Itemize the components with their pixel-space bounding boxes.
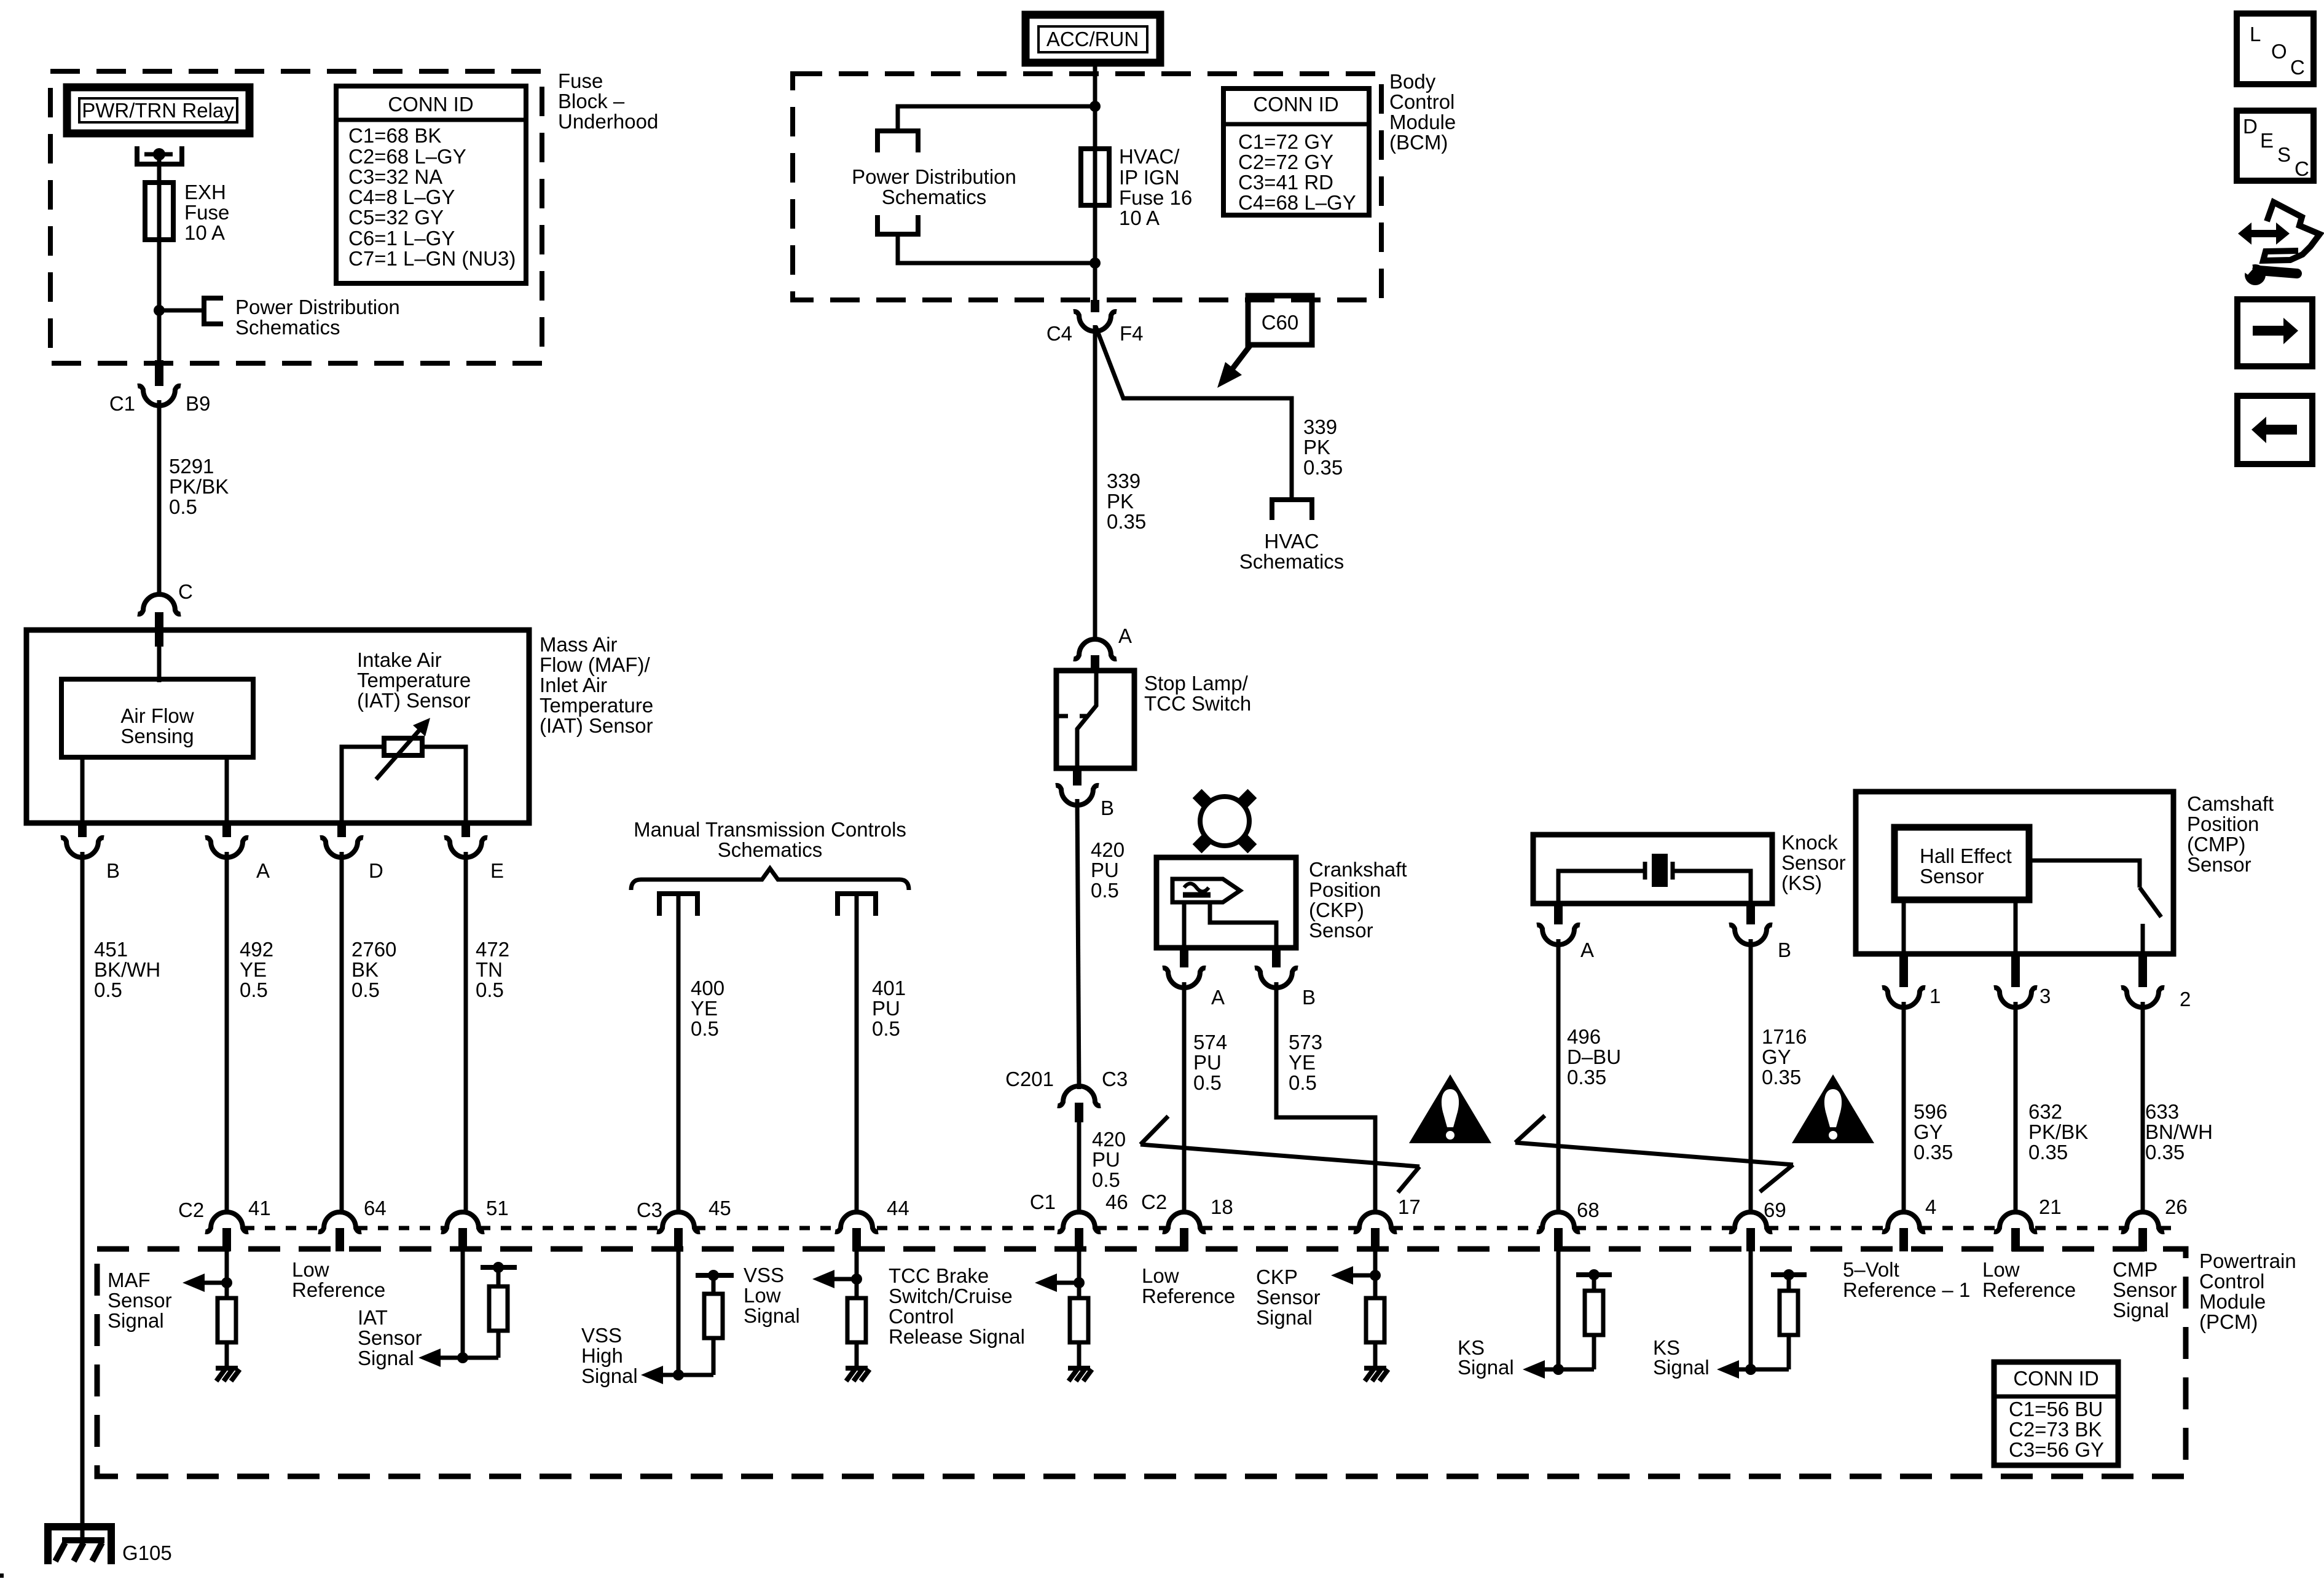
svg-text:C7=1 L–GN (NU3): C7=1 L–GN (NU3) bbox=[348, 247, 516, 270]
svg-text:BK: BK bbox=[351, 958, 379, 981]
piezo element bbox=[1652, 854, 1668, 887]
svg-text:Temperature: Temperature bbox=[540, 694, 653, 717]
svg-text:Schematics: Schematics bbox=[1239, 550, 1345, 573]
svg-text:0.35: 0.35 bbox=[1762, 1066, 1801, 1089]
pencil underline bbox=[1183, 892, 1211, 898]
power distribution schematics bracket bbox=[204, 298, 223, 324]
curly brace bbox=[631, 868, 909, 890]
svg-text:C201: C201 bbox=[1005, 1068, 1054, 1090]
KS pull-up resistor (69) bbox=[1780, 1291, 1798, 1335]
warning triangle 1 bbox=[1409, 1074, 1491, 1143]
KS junction dot (69) bbox=[1745, 1364, 1756, 1375]
svg-text:C2=72 GY: C2=72 GY bbox=[1238, 151, 1333, 173]
svg-text:Signal: Signal bbox=[1458, 1356, 1514, 1379]
svg-text:CMP: CMP bbox=[2113, 1258, 2157, 1281]
svg-text:C4=8 L–GY: C4=8 L–GY bbox=[348, 186, 455, 208]
IAT variable arrow bbox=[376, 728, 422, 779]
wire relay to fuse to junction bbox=[157, 154, 162, 310]
relay contact bar bbox=[144, 152, 173, 157]
svg-text:Position: Position bbox=[2187, 813, 2259, 835]
LOC icon box bbox=[2237, 14, 2314, 84]
svg-text:Powertrain: Powertrain bbox=[2199, 1250, 2296, 1272]
svg-text:492: 492 bbox=[240, 938, 273, 961]
svg-text:420: 420 bbox=[1091, 838, 1125, 861]
svg-text:Signal: Signal bbox=[108, 1309, 164, 1332]
pin 64 connector bbox=[318, 1212, 361, 1232]
wire 339 PK 0.35 main bbox=[1093, 325, 1097, 642]
ACC/RUN feed box bbox=[1026, 15, 1160, 63]
wire 596 GY 0.35 bbox=[1902, 1002, 1906, 1215]
C60 callout box bbox=[1248, 296, 1312, 345]
svg-text:PU: PU bbox=[1193, 1051, 1222, 1074]
svg-text:HVAC: HVAC bbox=[1264, 530, 1319, 553]
wire 574 PU 0.5 bbox=[1182, 982, 1187, 1215]
svg-text:PU: PU bbox=[1091, 859, 1119, 881]
svg-text:68: 68 bbox=[1577, 1199, 1600, 1221]
junction dot bbox=[154, 305, 165, 316]
connector C1/B9 stub bbox=[155, 360, 163, 386]
back arrow icon box bbox=[2237, 396, 2312, 464]
svg-text:Sensor: Sensor bbox=[358, 1326, 422, 1349]
svg-text:Power Distribution: Power Distribution bbox=[235, 296, 400, 318]
svg-text:PK: PK bbox=[1107, 490, 1134, 513]
ground G105 bracket bbox=[48, 1527, 111, 1564]
svg-text:Sensing: Sensing bbox=[120, 725, 194, 747]
svg-text:339: 339 bbox=[1107, 470, 1140, 492]
connector B cup bbox=[1056, 786, 1099, 805]
svg-text:GY: GY bbox=[1914, 1120, 1943, 1143]
svg-text:Sensor: Sensor bbox=[1309, 919, 1373, 942]
MAF signal wire bbox=[225, 1251, 229, 1298]
svg-text:0.5: 0.5 bbox=[1289, 1071, 1317, 1094]
svg-text:IAT: IAT bbox=[358, 1306, 388, 1329]
TCC brake signal wire bbox=[855, 1251, 859, 1298]
svg-text:(BCM): (BCM) bbox=[1389, 131, 1448, 154]
low reference wire (pin 46) bbox=[1077, 1251, 1082, 1298]
svg-text:BN/WH: BN/WH bbox=[2145, 1120, 2213, 1143]
svg-text:C1: C1 bbox=[1030, 1191, 1056, 1213]
relay contact bracket bbox=[137, 146, 182, 164]
CKP internal wires bbox=[1184, 902, 1276, 948]
svg-text:1: 1 bbox=[1929, 985, 1941, 1007]
svg-text:Camshaft: Camshaft bbox=[2187, 792, 2274, 815]
svg-text:G105: G105 bbox=[122, 1542, 172, 1564]
svg-text:596: 596 bbox=[1914, 1100, 1947, 1123]
svg-text:Low: Low bbox=[1142, 1264, 1179, 1287]
svg-text:0.35: 0.35 bbox=[1107, 510, 1146, 533]
TCC pull resistor bbox=[847, 1298, 866, 1342]
wire pin A inside bbox=[225, 757, 229, 823]
svg-text:69: 69 bbox=[1764, 1199, 1786, 1221]
svg-text:18: 18 bbox=[1211, 1195, 1233, 1218]
KS rail bar (69) bbox=[1771, 1272, 1807, 1277]
svg-text:YE: YE bbox=[240, 958, 267, 981]
svg-text:Sensor: Sensor bbox=[2113, 1278, 2177, 1301]
IAT pull-up rail bar bbox=[481, 1265, 517, 1270]
wire 472 TN 0.5 bbox=[464, 852, 468, 1215]
fuse block CONN ID table box bbox=[336, 86, 526, 283]
KS pin A connector bbox=[1554, 904, 1563, 924]
svg-text:C1=68 BK: C1=68 BK bbox=[348, 124, 441, 147]
knock sensor box bbox=[1533, 835, 1772, 904]
pencil squiggle bbox=[1184, 884, 1209, 892]
svg-text:YE: YE bbox=[1289, 1051, 1316, 1074]
svg-text:C: C bbox=[2295, 157, 2309, 180]
CKP pin A connector bbox=[1180, 948, 1188, 967]
C60 arrow bbox=[1230, 344, 1251, 372]
svg-text:Knock: Knock bbox=[1781, 831, 1838, 854]
svg-text:C1: C1 bbox=[109, 392, 135, 415]
repair tool icon: outline arrow bbox=[2263, 202, 2320, 261]
VSS junction dot bbox=[673, 1369, 684, 1380]
fuse block underhood dashed box bbox=[50, 71, 542, 363]
svg-text:PK/BK: PK/BK bbox=[2028, 1120, 2088, 1143]
svg-text:B9: B9 bbox=[186, 392, 210, 415]
connector A dome bbox=[1074, 639, 1117, 659]
CMP sensor box bbox=[1856, 792, 2173, 954]
svg-text:Position: Position bbox=[1309, 878, 1381, 901]
svg-text:Sensor: Sensor bbox=[2187, 853, 2251, 876]
svg-text:CKP: CKP bbox=[1256, 1266, 1298, 1288]
svg-text:C1=72 GY: C1=72 GY bbox=[1238, 130, 1333, 153]
svg-text:Manual Transmission Controls: Manual Transmission Controls bbox=[634, 818, 906, 841]
stop lamp/TCC switch box bbox=[1056, 671, 1134, 768]
svg-text:400: 400 bbox=[691, 977, 724, 999]
svg-text:401: 401 bbox=[872, 977, 906, 999]
svg-text:44: 44 bbox=[887, 1197, 909, 1219]
svg-text:B: B bbox=[1778, 939, 1791, 961]
connector A stub bbox=[1091, 655, 1099, 671]
svg-text:51: 51 bbox=[486, 1197, 509, 1219]
svg-text:Power Distribution: Power Distribution bbox=[852, 165, 1016, 188]
engine symbol circle bbox=[1200, 797, 1249, 846]
svg-text:A: A bbox=[1211, 986, 1225, 1009]
svg-text:0.35: 0.35 bbox=[1914, 1141, 1953, 1164]
CMP pin 2 connector bbox=[2138, 954, 2147, 987]
wire into air flow sensing bbox=[157, 647, 162, 682]
IAT pull-up resistor bbox=[489, 1286, 508, 1331]
wire 496 D-BU 0.35 bbox=[1557, 939, 1561, 1215]
svg-text:MAF: MAF bbox=[108, 1269, 151, 1291]
svg-text:PWR/TRN Relay: PWR/TRN Relay bbox=[82, 99, 234, 122]
power distribution bracket bottom bbox=[877, 215, 918, 234]
connector C1/B9 cup bbox=[138, 386, 181, 406]
CMP switch blade bbox=[2140, 888, 2161, 917]
power distribution bracket top bbox=[877, 131, 918, 152]
svg-text:Low: Low bbox=[1982, 1258, 2020, 1281]
wire 632 PK/BK 0.35 bbox=[2014, 1002, 2018, 1215]
pin 26 connector bbox=[2121, 1212, 2164, 1232]
svg-text:1716: 1716 bbox=[1762, 1025, 1807, 1048]
G105 ground plate bbox=[62, 1537, 104, 1543]
svg-text:VSS: VSS bbox=[744, 1264, 784, 1286]
svg-text:EXH: EXH bbox=[184, 181, 226, 203]
svg-text:C2=73 BK: C2=73 BK bbox=[2009, 1418, 2102, 1441]
svg-text:Signal: Signal bbox=[1256, 1306, 1313, 1329]
pin 21 connector bbox=[1994, 1212, 2037, 1232]
svg-text:Sensor: Sensor bbox=[1781, 851, 1846, 874]
svg-text:O: O bbox=[2271, 40, 2287, 63]
svg-text:0.5: 0.5 bbox=[240, 979, 268, 1001]
wire 573 YE 0.5 bbox=[1276, 982, 1375, 1215]
svg-text:A: A bbox=[256, 859, 270, 882]
BCM dashed box bbox=[793, 74, 1381, 300]
CMP switch wire bbox=[2029, 860, 2140, 888]
svg-text:Block –: Block – bbox=[558, 90, 625, 112]
wire pin B inside bbox=[80, 757, 85, 823]
svg-text:Signal: Signal bbox=[1653, 1356, 1710, 1379]
connector C stub bbox=[155, 612, 163, 647]
svg-text:0.5: 0.5 bbox=[476, 979, 504, 1001]
svg-text:A: A bbox=[1580, 939, 1594, 961]
svg-text:Reference: Reference bbox=[292, 1278, 385, 1301]
svg-text:PU: PU bbox=[1092, 1148, 1120, 1171]
CKP sensor box bbox=[1156, 857, 1296, 948]
svg-text:(KS): (KS) bbox=[1781, 872, 1822, 894]
PCM CONN ID table box bbox=[1994, 1362, 2118, 1465]
svg-text:339: 339 bbox=[1303, 415, 1337, 438]
svg-text:Stop Lamp/: Stop Lamp/ bbox=[1144, 672, 1249, 695]
CMP pin 1 connector bbox=[1899, 954, 1908, 987]
svg-text:Intake Air: Intake Air bbox=[357, 648, 442, 671]
svg-text:TN: TN bbox=[476, 958, 503, 981]
IAT signal arrow bbox=[418, 1349, 441, 1367]
repair tool icon: wrench bbox=[2245, 264, 2266, 285]
low ref pull resistor bbox=[1070, 1298, 1088, 1342]
connector C4/F4 cup bbox=[1074, 312, 1117, 331]
svg-text:Signal: Signal bbox=[744, 1304, 800, 1327]
svg-text:496: 496 bbox=[1567, 1025, 1601, 1048]
svg-text:0.5: 0.5 bbox=[872, 1017, 900, 1040]
svg-text:C2: C2 bbox=[178, 1199, 204, 1221]
scan artifact dot bottom-left bbox=[0, 1573, 4, 1578]
wire 2760 BK 0.5 bbox=[340, 852, 344, 1215]
svg-text:Module: Module bbox=[2199, 1290, 2266, 1313]
MAF pin A connector bbox=[222, 823, 231, 837]
pin 45 connector bbox=[657, 1212, 700, 1232]
pin 18 connector bbox=[1163, 1212, 1206, 1232]
svg-text:Control: Control bbox=[1389, 90, 1454, 113]
svg-text:Reference: Reference bbox=[1982, 1278, 2076, 1301]
svg-text:S: S bbox=[2277, 143, 2291, 166]
svg-text:PK: PK bbox=[1303, 436, 1330, 459]
svg-text:CONN ID: CONN ID bbox=[2013, 1367, 2098, 1390]
svg-text:C6=1 L–GY: C6=1 L–GY bbox=[348, 227, 455, 250]
CMP switch lower stub bbox=[2141, 924, 2145, 954]
svg-text:0.35: 0.35 bbox=[1303, 456, 1343, 479]
svg-text:10 A: 10 A bbox=[1119, 207, 1160, 229]
VSS low pull resistor bbox=[704, 1294, 723, 1338]
svg-text:C60: C60 bbox=[1262, 311, 1299, 334]
junction dot bottom bbox=[1089, 258, 1101, 269]
pin 17 connector bbox=[1354, 1212, 1397, 1232]
MAF sensor outer box bbox=[26, 630, 529, 823]
engine symbol tabs bbox=[1193, 789, 1211, 808]
svg-text:45: 45 bbox=[709, 1197, 731, 1219]
svg-text:C: C bbox=[178, 580, 193, 603]
svg-text:C: C bbox=[2290, 56, 2305, 79]
svg-text:C4: C4 bbox=[1046, 322, 1072, 345]
svg-text:0.5: 0.5 bbox=[1092, 1168, 1120, 1191]
svg-text:0.5: 0.5 bbox=[351, 979, 380, 1001]
svg-text:PU: PU bbox=[872, 997, 900, 1020]
wire 492 YE 0.5 bbox=[225, 852, 229, 1215]
svg-text:D: D bbox=[2243, 115, 2258, 138]
svg-text:2760: 2760 bbox=[351, 938, 396, 961]
KS arrow (68) bbox=[1523, 1360, 1545, 1379]
pin 69 connector bbox=[1729, 1212, 1772, 1232]
KS junction dot (68) bbox=[1553, 1364, 1564, 1375]
wire 420 PU 0.5 lower bbox=[1077, 1122, 1082, 1215]
svg-text:B: B bbox=[106, 859, 120, 882]
connector C201/C3 stub bbox=[1075, 1103, 1083, 1122]
ground under pin 17 bbox=[1364, 1368, 1388, 1381]
svg-text:VSS: VSS bbox=[581, 1324, 622, 1347]
twisted pair crossover 2 bbox=[1515, 1116, 1793, 1192]
svg-text:3: 3 bbox=[2039, 985, 2051, 1007]
pin 44 connector bbox=[835, 1212, 878, 1232]
repair tool icon: double arrow bbox=[2238, 222, 2290, 245]
svg-text:Release Signal: Release Signal bbox=[889, 1325, 1025, 1348]
svg-text:C4=68 L–GY: C4=68 L–GY bbox=[1238, 191, 1356, 214]
svg-text:2: 2 bbox=[2180, 988, 2191, 1010]
svg-text:C5=32 GY: C5=32 GY bbox=[348, 206, 444, 229]
svg-text:Control: Control bbox=[889, 1305, 954, 1328]
svg-text:D–BU: D–BU bbox=[1567, 1045, 1621, 1068]
svg-text:17: 17 bbox=[1398, 1195, 1421, 1218]
svg-text:420: 420 bbox=[1092, 1128, 1126, 1151]
svg-text:633: 633 bbox=[2145, 1100, 2179, 1123]
svg-text:D: D bbox=[369, 859, 383, 882]
svg-text:F4: F4 bbox=[1120, 322, 1144, 345]
svg-text:0.5: 0.5 bbox=[1193, 1071, 1222, 1094]
svg-text:Switch/Cruise: Switch/Cruise bbox=[889, 1285, 1013, 1307]
KS pull-up resistor (68) bbox=[1585, 1291, 1603, 1335]
svg-text:Fuse: Fuse bbox=[558, 69, 603, 92]
svg-text:0.35: 0.35 bbox=[2145, 1141, 2185, 1164]
svg-text:CONN ID: CONN ID bbox=[388, 93, 473, 116]
wire 420 PU 0.5 upper bbox=[1077, 799, 1079, 1089]
svg-text:5291: 5291 bbox=[169, 455, 214, 478]
wire branch to power distribution bbox=[159, 309, 204, 313]
svg-text:Fuse 16: Fuse 16 bbox=[1119, 186, 1192, 209]
svg-text:0.5: 0.5 bbox=[169, 495, 197, 518]
DESC icon box bbox=[2237, 111, 2314, 181]
svg-text:574: 574 bbox=[1193, 1031, 1227, 1053]
wire down through fuse block border bbox=[157, 310, 162, 360]
svg-text:26: 26 bbox=[2165, 1195, 2188, 1218]
svg-text:41: 41 bbox=[248, 1197, 271, 1219]
svg-text:0.5: 0.5 bbox=[691, 1017, 719, 1040]
CKP pull resistor bbox=[1366, 1298, 1384, 1342]
CKP junction dot bbox=[1370, 1270, 1381, 1281]
wire 633 BN/WH 0.35 bbox=[2141, 1002, 2145, 1215]
VSS high signal wire bbox=[677, 1251, 681, 1375]
svg-text:573: 573 bbox=[1289, 1031, 1322, 1053]
MAF resistor to ground wire bbox=[225, 1342, 229, 1367]
twisted pair crossover 1 bbox=[1140, 1116, 1419, 1192]
connector B stub bbox=[1073, 768, 1082, 786]
wire 5291 PK/BK 0.5 bbox=[157, 400, 162, 596]
CKP arrow bbox=[1331, 1266, 1353, 1285]
svg-text:B: B bbox=[1302, 986, 1316, 1009]
svg-text:Schematics: Schematics bbox=[235, 316, 340, 339]
fuse HVAC/IP IGN Fuse 16 10A bbox=[1081, 149, 1109, 205]
svg-text:Mass Air: Mass Air bbox=[540, 633, 618, 656]
low reference arrow bbox=[1035, 1274, 1057, 1292]
pin 4 connector bbox=[1882, 1212, 1925, 1232]
svg-text:C2=68 L–GY: C2=68 L–GY bbox=[348, 145, 466, 168]
svg-text:C3=41 RD: C3=41 RD bbox=[1238, 171, 1333, 194]
ground under pin 41 bbox=[216, 1368, 240, 1381]
svg-text:Low: Low bbox=[292, 1258, 329, 1281]
svg-text:Sensor: Sensor bbox=[1920, 865, 1984, 888]
MAF junction dot bbox=[221, 1277, 232, 1288]
main ignition wire from ACC/RUN bbox=[1093, 63, 1097, 300]
svg-text:Reference: Reference bbox=[1142, 1285, 1235, 1307]
svg-text:Module: Module bbox=[1389, 111, 1456, 133]
ground under pin 44 bbox=[846, 1368, 870, 1381]
ground under pin 46 bbox=[1068, 1368, 1092, 1381]
IAT thermistor body bbox=[384, 738, 422, 755]
svg-text:Underhood: Underhood bbox=[558, 110, 658, 133]
svg-text:BK/WH: BK/WH bbox=[94, 958, 160, 981]
svg-text:Sensor: Sensor bbox=[1256, 1286, 1321, 1309]
svg-text:(CKP): (CKP) bbox=[1309, 899, 1364, 921]
HVAC schematics bracket bbox=[1272, 500, 1312, 520]
IAT thermistor loop wires bbox=[342, 747, 466, 823]
relay contact dot bbox=[153, 148, 165, 160]
svg-text:Flow (MAF)/: Flow (MAF)/ bbox=[540, 653, 650, 676]
air flow sensing box bbox=[61, 679, 253, 757]
svg-text:10 A: 10 A bbox=[184, 221, 225, 244]
MAF signal arrow bbox=[183, 1274, 205, 1292]
wire 400 YE 0.5 bbox=[677, 894, 681, 1215]
TCC junction dot bbox=[851, 1274, 862, 1285]
svg-text:C3=32 NA: C3=32 NA bbox=[348, 165, 442, 188]
svg-text:C3=56 GY: C3=56 GY bbox=[2009, 1438, 2104, 1461]
warning triangle 2 bbox=[1792, 1074, 1874, 1143]
bracket to manual trans (left) bbox=[659, 894, 697, 916]
svg-text:Signal: Signal bbox=[581, 1364, 638, 1387]
forward arrow icon box bbox=[2237, 299, 2312, 366]
G105 hatches bbox=[55, 1543, 102, 1561]
pin 51 connector bbox=[441, 1212, 484, 1232]
svg-text:C1=56 BU: C1=56 BU bbox=[2009, 1398, 2103, 1420]
KS internal wires bbox=[1558, 871, 1751, 904]
svg-text:(IAT) Sensor: (IAT) Sensor bbox=[540, 714, 653, 737]
wire to power distribution bracket top bbox=[898, 106, 1095, 131]
pin 41 connector bbox=[205, 1212, 248, 1232]
svg-text:Schematics: Schematics bbox=[718, 838, 823, 861]
svg-text:C3: C3 bbox=[637, 1199, 662, 1221]
relay PWR/TRN Relay label box bbox=[67, 87, 249, 133]
KS signal wire (pin 68) bbox=[1557, 1251, 1561, 1369]
svg-text:High: High bbox=[581, 1344, 623, 1367]
fuse EXH 10A bbox=[145, 183, 173, 240]
svg-text:Crankshaft: Crankshaft bbox=[1309, 858, 1407, 881]
connector C201/C3 dome bbox=[1058, 1086, 1101, 1106]
connector C4/F4 stub bbox=[1091, 300, 1099, 312]
MAF pull resistor bbox=[218, 1298, 236, 1342]
svg-text:Signal: Signal bbox=[2113, 1299, 2169, 1321]
BCM CONN ID table box bbox=[1223, 89, 1369, 215]
svg-text:64: 64 bbox=[364, 1197, 387, 1219]
bracket to manual trans (right) bbox=[838, 894, 876, 916]
svg-text:0.5: 0.5 bbox=[1091, 879, 1119, 902]
svg-text:4: 4 bbox=[1925, 1195, 1936, 1218]
svg-text:632: 632 bbox=[2028, 1100, 2062, 1123]
